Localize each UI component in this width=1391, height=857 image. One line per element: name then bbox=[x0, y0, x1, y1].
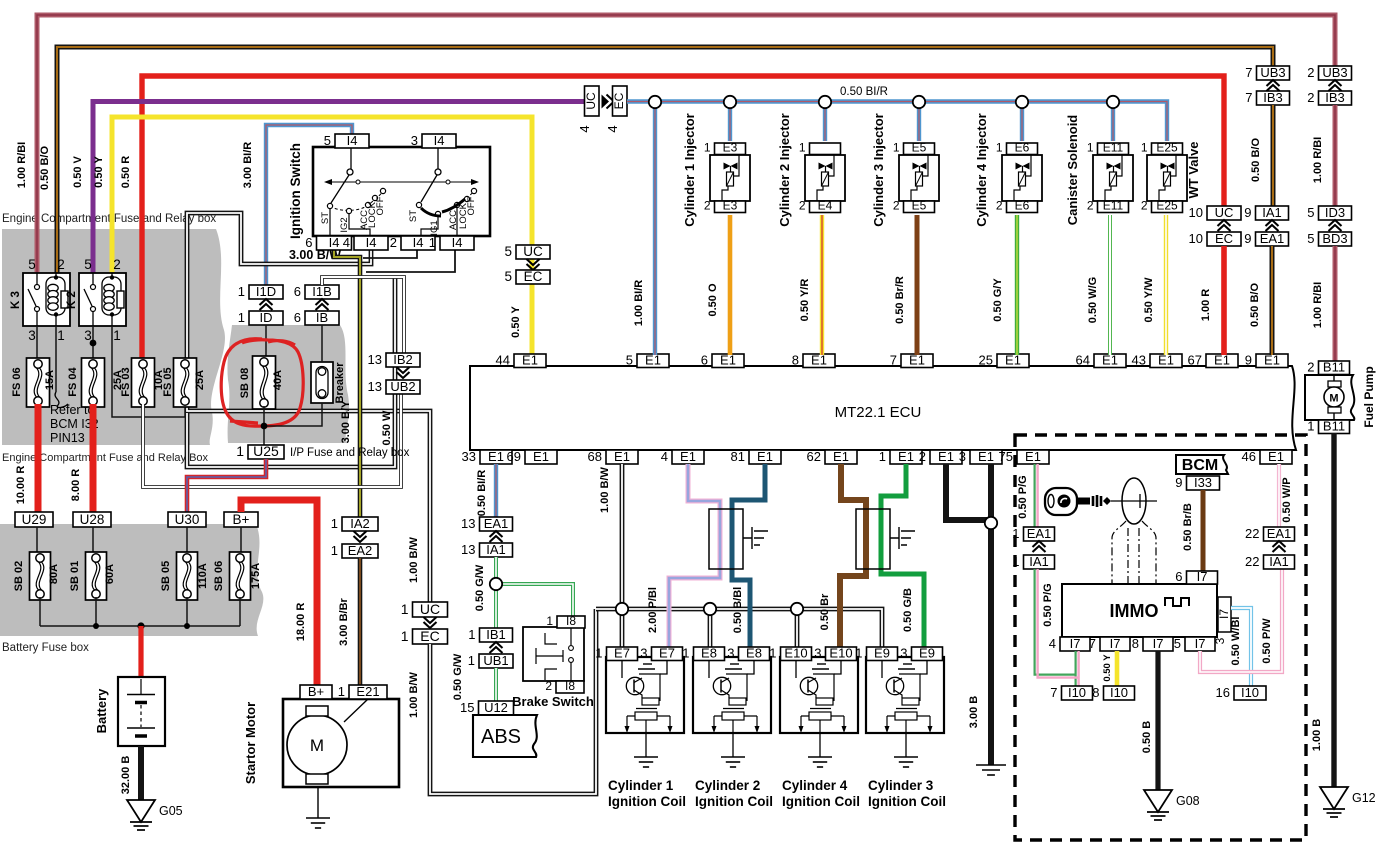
svg-text:MT22.1 ECU: MT22.1 ECU bbox=[835, 404, 922, 421]
svg-text:ID3: ID3 bbox=[1325, 205, 1345, 220]
svg-text:E11: E11 bbox=[1103, 199, 1124, 213]
svg-text:6: 6 bbox=[294, 284, 301, 299]
svg-text:ID: ID bbox=[260, 310, 273, 325]
wire 0.50 O injector1 to ECU pin 6 bbox=[707, 215, 730, 355]
svg-text:E3: E3 bbox=[723, 141, 738, 155]
wire 0.50 G/Y injector4 to ECU pin 25 bbox=[992, 215, 1017, 355]
connector 1 UC bbox=[401, 601, 448, 617]
svg-text:0.50 BI/R: 0.50 BI/R bbox=[476, 470, 488, 517]
label 1.00 BI/R bbox=[633, 280, 645, 327]
connector 22 IA1 bbox=[1245, 541, 1294, 569]
connector 1 B11 bbox=[1307, 419, 1349, 434]
svg-text:EA1: EA1 bbox=[484, 516, 509, 531]
svg-text:G05: G05 bbox=[159, 804, 183, 818]
svg-text:SB 02: SB 02 bbox=[13, 561, 25, 592]
svg-text:0.50 Y/W: 0.50 Y/W bbox=[1143, 277, 1155, 323]
svg-text:3: 3 bbox=[727, 646, 734, 661]
svg-text:I4: I4 bbox=[366, 235, 377, 250]
svg-text:IA1: IA1 bbox=[486, 542, 506, 557]
ECU pin 6 E1 (top) bbox=[701, 353, 744, 368]
svg-text:13: 13 bbox=[461, 542, 475, 557]
wire 1.00 R/BI from top-left to 2 UB3 bbox=[16, 15, 1335, 273]
svg-text:SB 05: SB 05 bbox=[160, 561, 172, 592]
svg-text:Cylinder 1: Cylinder 1 bbox=[608, 778, 674, 793]
wire K3 pin3 to FS 06 bbox=[36, 326, 38, 360]
wire 0.50 G/B from ECU pin 1 to coil 3 bbox=[881, 464, 924, 647]
svg-text:13: 13 bbox=[461, 516, 475, 531]
svg-text:1: 1 bbox=[401, 628, 409, 644]
svg-text:6: 6 bbox=[1175, 569, 1182, 584]
svg-text:175A: 175A bbox=[250, 563, 262, 589]
svg-text:ABS: ABS bbox=[481, 726, 521, 748]
cylinder 1 injector bbox=[682, 113, 750, 226]
svg-text:0.50 W/Bl: 0.50 W/Bl bbox=[1230, 617, 1242, 666]
svg-text:SB 06: SB 06 bbox=[213, 561, 225, 592]
svg-text:1.00 R/BI: 1.00 R/BI bbox=[16, 142, 28, 188]
svg-text:EC: EC bbox=[420, 628, 439, 644]
condenser 1 bbox=[709, 509, 768, 569]
wire 8.00 R from FS 04 to U28 bbox=[70, 404, 93, 512]
svg-text:7: 7 bbox=[1245, 90, 1252, 105]
svg-text:4: 4 bbox=[605, 125, 620, 132]
svg-text:0.50 Br/R: 0.50 Br/R bbox=[894, 276, 906, 324]
connector 4 I4 bbox=[343, 235, 388, 250]
connector 5 UC bbox=[504, 244, 550, 259]
svg-text:5: 5 bbox=[28, 257, 36, 272]
svg-text:44: 44 bbox=[496, 353, 510, 368]
svg-text:EC: EC bbox=[612, 92, 626, 109]
svg-text:Cylinder 4: Cylinder 4 bbox=[782, 778, 848, 793]
svg-text:10: 10 bbox=[1189, 205, 1203, 220]
svg-text:5: 5 bbox=[1307, 231, 1314, 246]
svg-text:0.50 G/W: 0.50 G/W bbox=[474, 564, 486, 611]
svg-text:FS 06: FS 06 bbox=[11, 367, 23, 396]
svg-text:SB 08: SB 08 bbox=[239, 368, 251, 399]
connector 6 I4 bbox=[305, 235, 351, 250]
wire 32.00 B battery to ground bbox=[120, 746, 141, 800]
wire 1.00 R/BI from 2 IB3 to 5 ID3 bbox=[1312, 105, 1335, 206]
wire 3.00 B/Y from ignition switch 6 I4 to 1 IA2 bbox=[334, 249, 360, 517]
ground G05 bbox=[127, 800, 183, 830]
svg-text:1: 1 bbox=[799, 141, 806, 155]
connector 7 I7 bbox=[1089, 636, 1130, 651]
cylinder 1 ignition coil bbox=[595, 646, 686, 810]
connector 7 IB3 bbox=[1245, 80, 1289, 105]
svg-text:1: 1 bbox=[1012, 554, 1019, 569]
Engine Compartment Fuse and Relay box (grey body) bbox=[2, 213, 225, 464]
svg-text:1: 1 bbox=[855, 646, 862, 661]
connector 7 I10 bbox=[1050, 685, 1092, 700]
svg-text:2: 2 bbox=[390, 235, 397, 250]
ECU pin 5 E1 (top) bbox=[626, 353, 669, 368]
svg-text:0.50 B: 0.50 B bbox=[1141, 721, 1153, 753]
bus junction cylinder 4 injector bbox=[1016, 96, 1028, 108]
svg-text:5: 5 bbox=[504, 244, 512, 259]
svg-text:E7: E7 bbox=[659, 646, 675, 661]
ECU pin 46 E1 (bottom) bbox=[1242, 449, 1292, 464]
svg-text:E5: E5 bbox=[912, 141, 927, 155]
junction 0.50 G/W bbox=[490, 578, 502, 590]
svg-text:0.50 Y: 0.50 Y bbox=[510, 306, 522, 338]
svg-text:Canister Solenoid: Canister Solenoid bbox=[1065, 115, 1080, 226]
ECU pin 4 E1 (bottom) bbox=[661, 449, 704, 464]
svg-text:B+: B+ bbox=[233, 512, 250, 527]
svg-text:E1: E1 bbox=[1025, 449, 1041, 464]
svg-text:1: 1 bbox=[57, 328, 65, 343]
wire 0.50 W from 13 IB2 to 6 I1B bbox=[322, 277, 404, 354]
wire 0.50 P/G from ECU pin 75 to 1 EA1 bbox=[1017, 464, 1038, 527]
svg-text:UB3: UB3 bbox=[1260, 65, 1285, 80]
svg-text:0.50 BI/R: 0.50 BI/R bbox=[840, 86, 888, 98]
ECU pin 1 E1 (bottom) bbox=[879, 449, 922, 464]
svg-text:I4: I4 bbox=[452, 235, 463, 250]
wire 1.00 B/W label above 1 UC bbox=[408, 536, 420, 582]
svg-text:0.50 O: 0.50 O bbox=[707, 283, 719, 316]
svg-text:ST: ST bbox=[408, 210, 419, 222]
svg-text:U28: U28 bbox=[80, 512, 105, 527]
svg-text:E1: E1 bbox=[533, 449, 549, 464]
wire 0.50 G/W from 13 IA1 to brake switch and 1 IB1 bbox=[474, 557, 573, 628]
connector 6 IB bbox=[294, 299, 339, 325]
svg-text:2: 2 bbox=[996, 199, 1003, 213]
svg-text:16: 16 bbox=[1216, 685, 1230, 700]
connector 6 I1B bbox=[294, 284, 339, 299]
wire 0.50 Br from ECU pin 62 to coil 4 bbox=[819, 464, 866, 647]
connector 5 I7 bbox=[1174, 636, 1215, 651]
wire 1.00 R from 10 EC to ECU pin 67 bbox=[1200, 246, 1224, 355]
svg-text:Ignition Coil: Ignition Coil bbox=[782, 794, 860, 809]
svg-text:1.00 B/W: 1.00 B/W bbox=[408, 671, 420, 717]
svg-text:Ignition Coil: Ignition Coil bbox=[608, 794, 686, 809]
connector 13 EA1 bbox=[461, 516, 512, 531]
svg-text:Cylinder 3 Injector: Cylinder 3 Injector bbox=[871, 113, 886, 226]
connector 1 I8 bbox=[546, 614, 585, 628]
connector 6 I7 bbox=[1175, 569, 1217, 584]
fuse SB 08 40A bbox=[239, 356, 284, 409]
fuse FS 04 25A bbox=[67, 358, 124, 407]
wire IB to breaker bbox=[321, 325, 323, 362]
ECU pin 43 E1 (top) bbox=[1132, 353, 1182, 368]
cylinder 2 ignition coil bbox=[682, 646, 773, 810]
connector 1 EC bbox=[401, 617, 448, 644]
svg-text:2: 2 bbox=[1141, 199, 1148, 213]
svg-text:1: 1 bbox=[769, 646, 776, 661]
svg-text:1: 1 bbox=[338, 684, 345, 699]
svg-text:0.50 Y/R: 0.50 Y/R bbox=[799, 279, 811, 322]
wire stub from ignition switch 2 I4 bbox=[363, 249, 455, 272]
svg-text:5: 5 bbox=[84, 257, 92, 272]
connector 2 I8 bbox=[545, 679, 584, 693]
connector 13 IA1 bbox=[461, 531, 512, 557]
svg-text:2: 2 bbox=[799, 199, 806, 213]
svg-text:I4: I4 bbox=[434, 133, 445, 148]
connector U29 bbox=[15, 512, 53, 527]
ECU pin 44 E1 (top) bbox=[496, 353, 546, 368]
connector 5 BD3 bbox=[1307, 220, 1351, 246]
svg-text:67: 67 bbox=[1188, 353, 1202, 368]
svg-text:E1: E1 bbox=[1268, 449, 1284, 464]
connector 3 I4 ignition top right bbox=[411, 133, 456, 148]
connector 1 E21 bbox=[338, 684, 387, 699]
svg-text:1.00 R/BI: 1.00 R/BI bbox=[1312, 137, 1324, 183]
svg-text:E1: E1 bbox=[833, 449, 849, 464]
svg-text:EC: EC bbox=[524, 269, 543, 284]
svg-text:M: M bbox=[310, 736, 324, 755]
ground 3.00 B bbox=[976, 765, 1006, 775]
wire bus to battery bbox=[138, 626, 143, 677]
svg-text:G08: G08 bbox=[1176, 794, 1200, 808]
svg-text:I10: I10 bbox=[1068, 685, 1086, 700]
svg-text:IB2: IB2 bbox=[393, 352, 413, 367]
svg-text:81: 81 bbox=[731, 449, 745, 464]
svg-text:Cylinder 1 Injector: Cylinder 1 Injector bbox=[682, 113, 697, 226]
cylinder 3 injector bbox=[871, 113, 939, 226]
wire 0.50 Y from 7 I7 to 8 I10 bbox=[1102, 651, 1117, 686]
connector 1 EA2 bbox=[331, 531, 378, 558]
svg-text:69: 69 bbox=[507, 449, 521, 464]
connector 5 EC bbox=[504, 259, 550, 284]
svg-text:22: 22 bbox=[1245, 554, 1259, 569]
svg-text:IA2: IA2 bbox=[350, 516, 370, 531]
transponder coil ellipse bbox=[1111, 478, 1157, 524]
wire 0.50 V feed to 4 UC bbox=[72, 102, 584, 274]
bus junction cylinder 2 injector bbox=[819, 96, 831, 108]
wire 0.50 W/P from ECU pin 46 to 22 EA1 bbox=[1279, 464, 1293, 527]
svg-text:2: 2 bbox=[893, 199, 900, 213]
svg-text:E1: E1 bbox=[938, 449, 954, 464]
wire 3.00 BI/R from I1D to ignition switch 5 I4 bbox=[242, 125, 352, 285]
ECU pin 62 E1 (bottom) bbox=[807, 449, 857, 464]
svg-text:B+: B+ bbox=[308, 684, 324, 699]
fuse SB 05 110A bbox=[160, 527, 209, 600]
svg-text:IG2: IG2 bbox=[339, 217, 350, 232]
wire 3.00 B from ECU pins 2 and 3 to ground bbox=[946, 464, 991, 765]
red circle annotation around SB 08 bbox=[221, 339, 303, 426]
wire 0.50 B/O from top-left to 7 UB3 bbox=[39, 47, 1273, 273]
svg-text:60A: 60A bbox=[104, 564, 116, 584]
svg-text:Battery: Battery bbox=[94, 688, 109, 734]
svg-text:3: 3 bbox=[959, 449, 966, 464]
svg-text:E11: E11 bbox=[1103, 141, 1124, 155]
connector 1 UB1 bbox=[468, 642, 513, 668]
svg-text:5: 5 bbox=[324, 133, 331, 148]
svg-text:Cylinder 2 Injector: Cylinder 2 Injector bbox=[777, 113, 792, 226]
connector 5 I4 ignition top left bbox=[324, 133, 369, 148]
svg-text:2: 2 bbox=[1307, 65, 1314, 80]
wire 0.50 BI/R injector supply bus from 4 EC bbox=[627, 86, 1167, 355]
svg-text:U30: U30 bbox=[175, 512, 200, 527]
wire 1.00 B/W from ECU pin 68 to coil bus bbox=[599, 464, 622, 647]
svg-text:0.50 Br/B: 0.50 Br/B bbox=[1182, 503, 1194, 551]
wire 0.50 Y/W VVT valve to ECU pin 43 bbox=[1143, 215, 1166, 355]
svg-text:4: 4 bbox=[343, 235, 350, 250]
svg-text:1: 1 bbox=[429, 235, 436, 250]
connector 1 I1D bbox=[238, 284, 283, 299]
fuse FS 05 25A bbox=[162, 358, 206, 407]
startor motor bbox=[243, 699, 399, 787]
connector 1 IA1 bbox=[1012, 541, 1054, 569]
ignition coil supply bus bbox=[596, 609, 882, 647]
connector 3 I7 (side) bbox=[1213, 597, 1231, 644]
svg-text:2: 2 bbox=[704, 199, 711, 213]
svg-text:2: 2 bbox=[545, 679, 552, 693]
svg-text:UC: UC bbox=[584, 92, 598, 110]
svg-text:FS 04: FS 04 bbox=[67, 366, 79, 396]
svg-text:M: M bbox=[1329, 393, 1338, 405]
connector 1 IA2 bbox=[331, 516, 378, 531]
connector 7 UB3 bbox=[1245, 65, 1289, 80]
relay K2 bbox=[66, 257, 126, 343]
svg-text:WT Valve: WT Valve bbox=[1186, 141, 1201, 198]
svg-text:3: 3 bbox=[900, 646, 907, 661]
wire 0.50 B/O from 9 EA1 to ECU pin 9 bbox=[1249, 246, 1272, 355]
circuit breaker bbox=[311, 362, 346, 404]
ECU pin 67 E1 (top) bbox=[1188, 353, 1238, 368]
wire 3.00 B/Br from 1 EA2 to E21 bbox=[338, 558, 360, 685]
svg-text:E6: E6 bbox=[1015, 199, 1030, 213]
svg-text:U29: U29 bbox=[22, 512, 47, 527]
svg-text:1.00 R: 1.00 R bbox=[1200, 289, 1212, 321]
svg-text:Battery Fuse box: Battery Fuse box bbox=[2, 642, 89, 654]
connector 5 ID3 bbox=[1307, 205, 1351, 220]
svg-text:K 2: K 2 bbox=[66, 291, 78, 309]
svg-text:E1: E1 bbox=[811, 353, 827, 368]
svg-text:E1: E1 bbox=[978, 449, 994, 464]
svg-text:7: 7 bbox=[890, 353, 897, 368]
svg-text:0.50 G/Y: 0.50 G/Y bbox=[992, 278, 1004, 322]
svg-text:EA1: EA1 bbox=[1027, 526, 1052, 541]
svg-text:1.00 B: 1.00 B bbox=[1311, 719, 1323, 751]
svg-text:3: 3 bbox=[640, 646, 647, 661]
wire 0.50 W/G canister solenoid to ECU pin 64 bbox=[1087, 215, 1110, 355]
svg-text:6: 6 bbox=[294, 310, 301, 325]
fuse SB 01 60A bbox=[69, 527, 116, 600]
svg-text:1: 1 bbox=[331, 516, 338, 531]
wire 10.00 R from FS 06 to U29 bbox=[15, 404, 38, 512]
svg-text:32.00 B: 32.00 B bbox=[120, 756, 132, 795]
svg-text:Breaker: Breaker bbox=[334, 362, 346, 404]
svg-text:110A: 110A bbox=[197, 563, 209, 589]
svg-text:1: 1 bbox=[236, 443, 244, 459]
svg-text:2: 2 bbox=[919, 449, 926, 464]
svg-text:75: 75 bbox=[999, 449, 1013, 464]
svg-text:I7: I7 bbox=[1195, 636, 1206, 651]
svg-text:EA2: EA2 bbox=[348, 543, 373, 558]
svg-text:B11: B11 bbox=[1323, 419, 1345, 434]
svg-text:1: 1 bbox=[1307, 419, 1314, 434]
svg-text:E8: E8 bbox=[746, 646, 762, 661]
svg-text:0.50 Y: 0.50 Y bbox=[1102, 654, 1113, 682]
svg-text:E10: E10 bbox=[784, 646, 807, 661]
svg-text:3.00 B/Y: 3.00 B/Y bbox=[340, 400, 352, 443]
svg-text:IB: IB bbox=[316, 310, 328, 325]
svg-text:13: 13 bbox=[368, 352, 382, 367]
svg-text:E9: E9 bbox=[919, 646, 935, 661]
svg-text:OFF: OFF bbox=[466, 196, 477, 215]
wire 18.00 R from B+ to startor motor bbox=[241, 500, 317, 688]
fuse SB 06 175A bbox=[213, 527, 262, 600]
svg-text:Cylinder 3: Cylinder 3 bbox=[868, 778, 934, 793]
bus junction coil 2 bbox=[704, 603, 716, 615]
connector U28 bbox=[73, 512, 111, 527]
svg-text:IMMO: IMMO bbox=[1110, 601, 1159, 621]
wire 0.50 B/O from 7 IB3 to 9 IA1 bbox=[1250, 105, 1273, 206]
svg-text:1.00 R/BI: 1.00 R/BI bbox=[1312, 282, 1324, 328]
svg-text:7: 7 bbox=[1245, 65, 1252, 80]
wire U25 to U30 bbox=[187, 459, 266, 512]
wire 0.50 P/G from 1 IA1 to IMMO 4 I7 and 7 I10 bbox=[1035, 569, 1079, 686]
ECU pin 75 E1 (bottom) bbox=[999, 449, 1049, 464]
svg-text:25A: 25A bbox=[194, 370, 206, 390]
svg-text:1: 1 bbox=[1087, 141, 1094, 155]
svg-text:Ignition Coil: Ignition Coil bbox=[695, 794, 773, 809]
connector 8 I10 bbox=[1092, 685, 1134, 700]
svg-text:1: 1 bbox=[238, 284, 245, 299]
wire 0.50 Br/R injector3 to ECU pin 7 bbox=[894, 215, 917, 355]
connector 1 U25 bbox=[236, 443, 409, 459]
ECU pin 3 E1 (bottom) bbox=[959, 449, 1002, 464]
antenna field lines bbox=[1112, 521, 1156, 584]
svg-text:9: 9 bbox=[1244, 205, 1251, 220]
connector B+ battery fuse box bbox=[224, 512, 258, 527]
ABS module bbox=[473, 715, 537, 757]
svg-text:1: 1 bbox=[331, 543, 338, 558]
svg-text:E1: E1 bbox=[522, 353, 538, 368]
connector 2 I4 bbox=[390, 235, 435, 250]
wire 0.50 W from FS 03 to 13 UB2 bbox=[143, 392, 401, 487]
svg-text:0.50 G/W: 0.50 G/W bbox=[452, 653, 464, 700]
connector 9 EA1 bbox=[1244, 220, 1288, 246]
connector 15 U12 bbox=[460, 700, 513, 715]
svg-text:13: 13 bbox=[368, 379, 382, 394]
wire 0.50 B from IMMO 8 I7 to ground G08 bbox=[1141, 651, 1158, 790]
svg-text:IB3: IB3 bbox=[1263, 90, 1283, 105]
battery fuse box bus bar bbox=[40, 597, 240, 630]
svg-text:IA1: IA1 bbox=[1269, 554, 1289, 569]
svg-text:OFF: OFF bbox=[375, 196, 386, 215]
svg-text:E8: E8 bbox=[701, 646, 717, 661]
svg-text:SB 01: SB 01 bbox=[69, 561, 81, 592]
svg-text:5: 5 bbox=[1174, 636, 1181, 651]
bus junction cylinder 1 injector bbox=[724, 96, 736, 108]
ECU pin 25 E1 (top) bbox=[979, 353, 1029, 368]
svg-text:EA1: EA1 bbox=[1260, 231, 1285, 246]
wire SB 08 and breaker to U25 with junction bbox=[261, 403, 322, 445]
startor motor ground bbox=[306, 787, 330, 828]
svg-text:0.50 W/G: 0.50 W/G bbox=[1087, 277, 1099, 323]
connector 4 UC (rotated) bbox=[577, 86, 599, 133]
svg-text:UB3: UB3 bbox=[1322, 65, 1347, 80]
svg-text:I4: I4 bbox=[413, 235, 424, 250]
svg-text:0.50 V: 0.50 V bbox=[72, 155, 84, 187]
ECU pin 8 E1 (top) bbox=[792, 353, 835, 368]
svg-text:6: 6 bbox=[305, 235, 312, 250]
svg-text:10: 10 bbox=[1189, 231, 1203, 246]
svg-text:2: 2 bbox=[1087, 199, 1094, 213]
svg-text:UB1: UB1 bbox=[483, 653, 508, 668]
svg-text:E3: E3 bbox=[723, 199, 738, 213]
svg-text:Cylinder 2: Cylinder 2 bbox=[695, 778, 760, 793]
svg-text:46: 46 bbox=[1242, 449, 1256, 464]
svg-text:I4: I4 bbox=[329, 235, 340, 250]
svg-text:I1D: I1D bbox=[256, 284, 276, 299]
svg-text:UC: UC bbox=[420, 601, 440, 617]
svg-text:EA1: EA1 bbox=[1267, 526, 1292, 541]
canister solenoid bbox=[1065, 115, 1133, 226]
svg-text:E9: E9 bbox=[874, 646, 890, 661]
svg-text:8: 8 bbox=[792, 353, 799, 368]
svg-text:1: 1 bbox=[546, 614, 553, 628]
